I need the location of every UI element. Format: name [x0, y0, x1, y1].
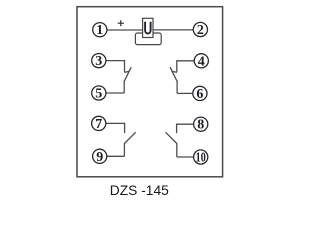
terminal 5 — [92, 86, 106, 100]
coil value label U — [145, 22, 151, 34]
svg-text:6: 6 — [196, 87, 203, 102]
wire to terminal 9 — [107, 155, 125, 157]
contact K4 (terminals 8-10, make contact, mirrored) — [166, 124, 194, 158]
relay case outline — [77, 7, 223, 177]
wire to terminal 5 — [106, 92, 124, 94]
contact K3 (terminals 7-9, make contact) — [106, 123, 136, 157]
wire from terminal 3 — [106, 60, 125, 62]
contact K1 (terminals 3-5, delayed make contact) — [106, 60, 131, 93]
moving blade — [170, 67, 177, 82]
moving contact stub — [123, 82, 125, 93]
svg-text:8: 8 — [197, 118, 204, 133]
svg-text:9: 9 — [96, 150, 103, 165]
terminal 9 — [93, 149, 107, 163]
wire from terminal 7 — [106, 122, 125, 124]
contact tick — [124, 71, 129, 72]
wire to terminal 10 — [177, 156, 194, 158]
svg-text:10: 10 — [196, 149, 206, 165]
fixed contact stub — [124, 60, 126, 72]
svg-text:1: 1 — [96, 23, 103, 38]
wire terminal 1 to coil U — [107, 29, 144, 31]
coil U1 body (wide box) — [135, 33, 161, 45]
svg-text:3: 3 — [95, 54, 102, 69]
moving blade — [124, 67, 131, 82]
svg-text:7: 7 — [95, 117, 102, 132]
terminal 6 — [193, 86, 207, 100]
terminal 2 — [193, 22, 207, 36]
terminal 1 — [93, 23, 107, 37]
contact tick — [172, 71, 177, 72]
fixed contact stub — [124, 123, 126, 133]
terminal 3 — [92, 54, 106, 68]
svg-text:5: 5 — [95, 87, 102, 102]
contact K2 (terminals 4-6, delayed make contact, mirrored) — [170, 60, 194, 93]
moving contact stub — [123, 143, 125, 156]
fixed contact stub — [176, 60, 178, 72]
coil U1 core (tall box) — [143, 18, 153, 37]
terminal 4 — [194, 54, 208, 68]
moving contact stub — [176, 82, 178, 94]
wire from terminal 8 — [177, 123, 194, 125]
moving blade — [124, 132, 135, 143]
fixed contact stub — [176, 124, 178, 134]
svg-text:2: 2 — [197, 23, 204, 38]
wire from terminal 4 — [177, 60, 194, 62]
moving contact stub — [176, 143, 178, 157]
wire coil U to terminal 2 — [153, 29, 194, 31]
polarity mark + — [118, 20, 124, 26]
svg-text:4: 4 — [198, 54, 205, 69]
terminal 7 — [92, 116, 106, 130]
terminal 8 — [194, 117, 208, 131]
svg-text:DZS -145: DZS -145 — [110, 183, 169, 198]
terminal 10 — [194, 150, 208, 164]
wire to terminal 6 — [177, 92, 193, 94]
moving blade — [166, 132, 177, 143]
